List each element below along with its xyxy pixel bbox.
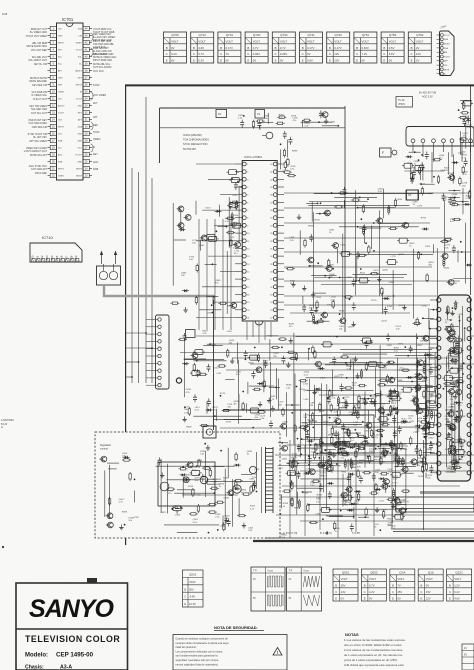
wire xyxy=(278,442,288,444)
transistor Q337 xyxy=(380,450,387,456)
resistor R225 xyxy=(257,411,266,413)
wire xyxy=(307,424,362,426)
resistor R415 xyxy=(456,379,458,388)
resistor R351 xyxy=(389,405,391,414)
resistor R339 xyxy=(338,408,340,417)
wire xyxy=(458,336,460,445)
wire xyxy=(284,266,432,268)
voltage table Q701 xyxy=(218,32,241,63)
node junction xyxy=(397,462,399,464)
pin 5 IC701 xyxy=(48,54,63,58)
wire xyxy=(433,411,435,423)
pin 3 IC701 xyxy=(48,40,65,44)
pin 11 U201 xyxy=(235,239,250,243)
wire xyxy=(342,424,363,426)
wire xyxy=(166,479,200,481)
nota de seguridad title xyxy=(214,625,264,631)
transistor Q109 xyxy=(447,175,454,181)
wire xyxy=(314,443,407,445)
node junction xyxy=(365,242,367,244)
transistor Q423 xyxy=(451,349,458,355)
wire xyxy=(249,385,275,387)
resistor R261 xyxy=(377,365,386,367)
diode D502 xyxy=(180,473,187,476)
wire xyxy=(184,358,206,360)
wire bus stub xyxy=(126,376,132,378)
inductor L354 xyxy=(344,459,346,469)
label IC701 left pin name xyxy=(32,126,48,129)
pin 8 U201 xyxy=(235,216,249,220)
diode D459 xyxy=(215,210,222,213)
pin 1 IC710 xyxy=(31,255,36,262)
capacitor C458 xyxy=(423,413,427,421)
voltage table Q551 xyxy=(333,569,358,601)
node junction xyxy=(208,532,210,534)
capacitor C148 xyxy=(462,118,466,126)
pin 10 CN701 xyxy=(437,72,448,75)
component box X378 xyxy=(390,396,402,401)
pin 7 module left xyxy=(430,356,441,360)
wire xyxy=(184,338,186,398)
node junction xyxy=(172,508,174,510)
label IC note block xyxy=(183,133,209,151)
node junction xyxy=(418,427,420,429)
pin 6 tuner xyxy=(460,139,464,162)
component box X226 xyxy=(248,355,260,360)
ground xyxy=(450,358,454,363)
wire xyxy=(307,389,374,391)
wire xyxy=(177,531,198,533)
connector CN201 xyxy=(156,315,170,389)
wire xyxy=(337,249,339,264)
resistor R534 xyxy=(307,503,309,512)
wire xyxy=(278,378,280,409)
resistor R559 xyxy=(291,481,293,490)
node junction xyxy=(339,313,341,315)
pin 4 CN201 xyxy=(146,340,161,343)
diode D544 xyxy=(347,509,354,512)
capacitor C577 xyxy=(328,491,332,499)
wire xyxy=(322,125,339,127)
pin 2 U201 xyxy=(235,170,249,174)
capacitor C394 xyxy=(452,329,456,337)
wire xyxy=(222,515,224,527)
label left margin rows xyxy=(1,419,14,426)
transistor Q223 xyxy=(191,353,198,359)
wire xyxy=(337,431,339,454)
capacitor C132 xyxy=(257,120,261,128)
label IC701 right pin name xyxy=(93,146,96,149)
node junction xyxy=(281,346,283,348)
wire xyxy=(308,265,323,267)
wire xyxy=(381,222,409,224)
capacitor C146 xyxy=(319,110,323,118)
wire xyxy=(133,491,135,503)
pin 30 module right xyxy=(467,375,471,379)
wire xyxy=(207,481,256,483)
resistor R530 xyxy=(397,457,399,466)
wire xyxy=(428,308,430,329)
wire xyxy=(308,420,317,422)
wire xyxy=(222,219,224,330)
wire xyxy=(449,382,464,384)
diode D556 xyxy=(304,472,311,475)
pin 4 module left xyxy=(430,327,441,331)
node junction xyxy=(242,391,244,393)
resistor R220 xyxy=(222,409,231,411)
wire xyxy=(454,401,456,473)
capacitor C286 xyxy=(297,444,301,452)
resistor R489 xyxy=(215,501,224,503)
wire xyxy=(425,400,427,456)
pin 30 IC701 xyxy=(78,124,92,128)
wire inner box second line xyxy=(160,127,346,129)
transistor Q431 xyxy=(449,425,456,431)
wire xyxy=(447,353,449,370)
wire xyxy=(266,335,278,337)
pin 19 module left xyxy=(430,471,441,475)
node junction xyxy=(308,348,310,350)
node junction xyxy=(390,452,392,454)
node junction xyxy=(381,436,383,438)
resistor R262 xyxy=(394,452,396,461)
resistor R224 xyxy=(263,380,265,389)
capacitor C532 xyxy=(359,475,363,483)
node junction xyxy=(424,436,426,438)
resistor R205 xyxy=(452,218,461,220)
capacitor C233 xyxy=(193,394,197,402)
wire xyxy=(287,444,377,446)
wire xyxy=(445,356,447,404)
pin 5 CN201 xyxy=(146,347,161,350)
wire xyxy=(459,315,461,442)
pin 5 U201 xyxy=(235,193,249,197)
pin 10 IC710 xyxy=(74,255,79,262)
node junction xyxy=(349,298,351,300)
node junction xyxy=(391,411,393,413)
capacitor C301 xyxy=(401,458,405,466)
label IC701 right pin name xyxy=(93,102,98,105)
label IC701 left pin name xyxy=(30,154,48,157)
resistor R138 xyxy=(284,161,286,170)
transistor Q279 xyxy=(377,408,384,414)
capacitor C518 xyxy=(175,506,179,514)
wire xyxy=(348,488,350,500)
label IC701 left pin name xyxy=(28,56,47,62)
capacitor C355 xyxy=(389,440,393,448)
wire xyxy=(319,394,393,396)
pin 10 module left xyxy=(430,384,441,388)
node junction xyxy=(346,429,348,431)
diode D200 xyxy=(463,203,470,206)
component box X385 xyxy=(389,392,401,397)
wire xyxy=(230,219,232,330)
node junction xyxy=(389,401,391,403)
transistor Q568 xyxy=(393,498,400,504)
resistor R540 xyxy=(384,448,386,457)
capacitor C373 xyxy=(342,443,346,451)
resistor R343 xyxy=(414,397,416,406)
resistor R136 xyxy=(256,120,265,122)
wire xyxy=(305,377,422,379)
resistor R206 xyxy=(468,190,470,199)
transistor Q558 xyxy=(340,492,347,498)
capacitor C476 xyxy=(364,436,368,444)
wire xyxy=(353,507,355,519)
wire xyxy=(326,402,328,462)
voltage table Q531 xyxy=(183,570,204,607)
wire xyxy=(107,462,119,464)
wire rail xyxy=(286,462,470,464)
diode D380 xyxy=(314,388,321,391)
ground xyxy=(453,359,457,364)
node junction xyxy=(212,312,214,314)
wire xyxy=(238,360,240,424)
wire xyxy=(343,432,361,434)
wire xyxy=(470,122,472,126)
node junction xyxy=(424,360,426,362)
resistor R184 xyxy=(394,198,396,207)
resistor R371 xyxy=(389,388,391,397)
wire drop xyxy=(337,448,339,538)
inductor L361 xyxy=(350,458,352,468)
resistor R333 xyxy=(295,352,297,361)
ground xyxy=(324,118,328,123)
wire xyxy=(353,362,355,411)
wire xyxy=(397,358,399,457)
ground xyxy=(445,309,449,314)
resistor R498 xyxy=(210,487,219,489)
wire xyxy=(383,410,385,426)
wire xyxy=(345,402,390,404)
wire xyxy=(269,339,271,361)
transistor Q425 xyxy=(447,348,454,354)
transistor Q469 xyxy=(177,206,184,212)
capacitor C342 xyxy=(409,345,413,353)
pin 1 CN701 xyxy=(437,34,451,37)
transistor Q491 xyxy=(182,477,189,483)
transistor Q204 xyxy=(441,253,448,259)
resistor R522 xyxy=(209,468,211,477)
resistor R298 xyxy=(329,389,331,398)
resistor R131 xyxy=(230,223,239,225)
inductor L360 xyxy=(337,396,339,406)
label IC701 right pin name xyxy=(93,168,99,171)
node left margin dot xyxy=(2,546,4,548)
node junction xyxy=(254,347,256,349)
diode D436 xyxy=(415,424,422,427)
node junction xyxy=(460,241,462,243)
ground xyxy=(258,402,262,407)
wire xyxy=(422,168,424,180)
wire xyxy=(245,403,247,412)
diode D450 xyxy=(415,373,422,376)
resistor R244 xyxy=(271,346,280,348)
resistor R525 xyxy=(357,469,359,478)
wire xyxy=(382,189,384,218)
pin 13 U201 xyxy=(235,254,250,258)
wire xyxy=(393,528,474,530)
op-amp U701 (IC701 jungle IC) xyxy=(57,17,84,180)
resistor R249 xyxy=(294,424,296,433)
pin 24 module right xyxy=(467,432,471,436)
pin 2 IC710 xyxy=(35,255,40,262)
diode D545 xyxy=(349,503,356,506)
capacitor C208 xyxy=(448,197,452,205)
wire xyxy=(395,444,397,456)
component box X349 xyxy=(401,387,413,392)
label IC701 right pin name xyxy=(93,28,115,34)
component box CRT socket xyxy=(396,497,474,512)
resistor R512 xyxy=(179,468,188,470)
wire xyxy=(359,227,381,229)
transistor Q190 xyxy=(375,218,382,224)
node junction xyxy=(145,332,147,334)
wire xyxy=(423,452,435,454)
wire xyxy=(321,284,412,286)
pin 4 U201 xyxy=(235,185,249,189)
wire xyxy=(453,154,455,180)
transistor Q317 xyxy=(317,462,324,468)
inductor L455 xyxy=(431,410,433,420)
resistor R490 xyxy=(223,523,225,532)
antenna arrows xyxy=(100,251,117,265)
node junction xyxy=(362,421,364,423)
transistor Q572 xyxy=(398,508,405,514)
resistor R492 xyxy=(198,459,200,468)
node junction xyxy=(300,454,302,456)
pin 27 module right xyxy=(467,404,471,408)
ground xyxy=(224,518,228,523)
wire xyxy=(325,364,432,366)
voltage table Q742 xyxy=(327,32,350,63)
wire xyxy=(263,360,265,392)
voltage table Q712 xyxy=(191,32,214,63)
node junction xyxy=(320,202,322,204)
wire xyxy=(358,516,369,518)
node junction xyxy=(343,397,345,399)
capacitor C105 xyxy=(420,162,424,170)
node junction xyxy=(461,456,463,458)
node junction xyxy=(447,412,449,414)
wire xyxy=(208,255,235,257)
capacitor C363 xyxy=(328,449,332,457)
node junction xyxy=(387,450,389,452)
wire long dark xyxy=(223,409,462,411)
wire xyxy=(348,472,350,486)
capacitor C276 xyxy=(427,421,431,429)
resistor R429 xyxy=(451,323,453,332)
resistor R524 xyxy=(387,498,396,500)
pin 36 module right xyxy=(467,317,471,321)
pin 12 IC701 xyxy=(48,103,65,107)
resistor R213 xyxy=(188,407,190,416)
pin 9 module left xyxy=(430,375,441,379)
wire xyxy=(228,197,230,248)
wire xyxy=(379,210,381,295)
capacitor C501 xyxy=(201,474,205,482)
capacitor C379 xyxy=(398,426,402,434)
capacitor C126 xyxy=(228,201,232,209)
pin 6 CN201 xyxy=(146,354,161,357)
wire xyxy=(394,465,416,467)
wire xyxy=(464,329,466,341)
capacitor C170 xyxy=(352,302,356,310)
transistor Q472 xyxy=(177,223,184,229)
label IC701 left pin name xyxy=(27,42,48,48)
resistor R287 xyxy=(396,454,398,463)
diode D364 xyxy=(401,420,408,423)
resistor R514 xyxy=(235,452,237,461)
resistor R353 xyxy=(387,443,396,445)
wire long xyxy=(196,335,474,337)
wire xyxy=(416,333,418,415)
resistor R416 xyxy=(445,437,454,439)
transistor Q292 xyxy=(387,377,394,383)
component box IF xyxy=(406,190,418,200)
resistor R174 xyxy=(316,300,318,309)
wire xyxy=(308,504,407,506)
capacitor C369 xyxy=(395,407,399,415)
transistor Q396 xyxy=(448,449,455,455)
resistor R155 xyxy=(368,245,370,254)
component box X401 xyxy=(442,376,454,381)
transistor Q473 xyxy=(184,215,191,221)
wire xyxy=(309,379,311,473)
resistor R246 xyxy=(257,353,259,362)
capacitor C410 xyxy=(452,461,456,469)
component box X452 xyxy=(424,423,436,428)
node junction xyxy=(454,308,456,310)
wire xyxy=(413,249,415,319)
ground xyxy=(421,426,425,431)
transistor Q542 xyxy=(324,460,331,466)
resistor R182 xyxy=(389,227,398,229)
wire xyxy=(446,308,448,320)
ground xyxy=(289,338,293,343)
resistor R152 xyxy=(459,138,468,140)
diode D162 xyxy=(422,228,429,231)
wire xyxy=(328,434,340,436)
ground xyxy=(353,356,357,361)
wire xyxy=(199,309,221,311)
diode D570 xyxy=(348,473,355,476)
resistor R293 xyxy=(378,379,387,381)
resistor R463 xyxy=(195,296,197,305)
pin 5 module left xyxy=(430,336,441,340)
resistor R482 xyxy=(122,459,131,461)
capacitor C219 xyxy=(207,398,211,406)
resistor R348 xyxy=(289,357,298,359)
transistor Q549 xyxy=(382,479,389,485)
node junction xyxy=(220,450,222,452)
pin 5 tuner xyxy=(450,139,454,157)
label IC701 right pin name xyxy=(93,131,100,134)
wire xyxy=(206,402,208,414)
pin 25 IC701 xyxy=(77,159,92,163)
label IC701 right pin name xyxy=(93,124,98,127)
pin 27 IC701 xyxy=(78,145,92,149)
transistor Q154 xyxy=(307,257,314,263)
node junction xyxy=(457,416,459,418)
pin 2 IC701 xyxy=(48,33,64,37)
resistor R185 xyxy=(338,192,347,194)
wire xyxy=(196,317,235,319)
resistor R370 xyxy=(329,457,331,466)
wire xyxy=(453,441,465,443)
pin 17 IC701 xyxy=(48,138,63,142)
transistor Q321 xyxy=(401,467,408,473)
